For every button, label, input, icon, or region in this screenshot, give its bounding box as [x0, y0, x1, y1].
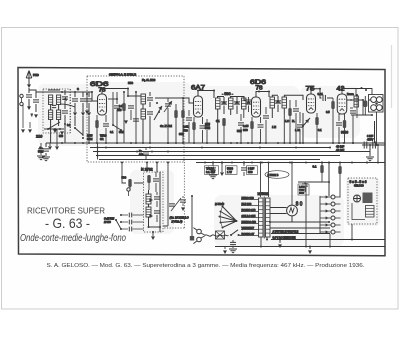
switch caps	[129, 213, 131, 218]
oval label N 5032	[265, 171, 289, 179]
right side vertical from speaker	[361, 113, 385, 145]
osc feed resistor 500	[128, 179, 131, 187]
secondary lines	[270, 228, 330, 234]
ground arrows under coil block	[48, 146, 52, 150]
bus AVC line	[46, 142, 385, 144]
V3 top cap wire	[256, 92, 269, 98]
svg-text:450V: 450V	[367, 138, 373, 142]
antenna coil LA3	[49, 110, 53, 120]
svg-text:5000: 5000	[227, 167, 233, 171]
V1 grid wire	[92, 92, 98, 101]
band switch bar antenna	[44, 128, 64, 130]
svg-text:8 MF: 8 MF	[248, 167, 254, 171]
mains feed wire	[191, 196, 193, 236]
bus junction dots	[96, 142, 98, 144]
V1 cathode bypass cap	[105, 115, 107, 122]
supply label box 2	[226, 166, 238, 175]
pictorial socket circle	[354, 195, 361, 202]
svg-text:1 M: 1 M	[295, 128, 300, 132]
svg-text:G05: G05	[117, 110, 122, 112]
switch to primary wire	[239, 234, 242, 237]
RF unit dashed box N 501 B	[87, 76, 184, 162]
antenna trimmer	[35, 92, 37, 98]
trimmer arrow across cap	[164, 101, 172, 112]
svg-text:A TUTTE LE VALVOLE: A TUTTE LE VALVOLE	[273, 231, 299, 234]
oscillator band switch contacts	[120, 214, 122, 216]
IFT1 output to V3	[237, 97, 252, 101]
svg-text:GRUPPO A. F. N 501 B: GRUPPO A. F. N 501 B	[109, 72, 136, 76]
svg-text:GIALLO 125: GIALLO 125	[242, 215, 257, 218]
svg-text:Ronza: Ronza	[347, 94, 354, 96]
svg-text:N 5032 B: N 5032 B	[268, 173, 279, 177]
voltage selector fan	[236, 220, 238, 222]
wires transformer to rectifier	[270, 208, 292, 223]
mid ground arrow	[86, 94, 88, 108]
input divider arrows	[22, 104, 24, 128]
svg-text:1 M: 1 M	[272, 126, 276, 129]
svg-text:3R: 3R	[100, 137, 104, 141]
switch arm	[116, 220, 121, 229]
pictorial wiring	[352, 203, 365, 220]
V5 grid resistor	[331, 101, 334, 109]
mains switch	[230, 234, 232, 236]
cap on osc right wire	[169, 204, 175, 206]
second ground cap antenna	[40, 143, 42, 147]
svg-text:ROSSO 140: ROSSO 140	[242, 209, 257, 212]
oscillator coil LO1	[146, 194, 151, 204]
svg-text:M.: M.	[292, 119, 295, 123]
bus line 5	[99, 159, 320, 161]
terminal strip drop wires	[330, 224, 352, 247]
det aux cap	[297, 125, 303, 127]
svg-text:1.C: 1.C	[285, 119, 289, 123]
ground antenna	[27, 106, 31, 110]
V1 screen bypass cap	[116, 98, 118, 100]
diagonal wire to filter cap	[171, 198, 181, 211]
antenna coil group L1 dashed enclosure	[43, 89, 70, 133]
svg-text:0.1: 0.1	[318, 128, 322, 132]
svg-text:300: 300	[243, 128, 248, 132]
pictorial transformer block	[363, 193, 373, 204]
plate junction dots	[101, 88, 103, 90]
antenna coil LA2	[57, 95, 61, 105]
svg-text:ROSSO AT: ROSSO AT	[242, 233, 255, 236]
terminal arrows	[326, 195, 329, 198]
svg-text:BIANCO 110: BIANCO 110	[242, 221, 257, 224]
power transformer secondary winding	[266, 198, 271, 237]
svg-text:Onde-corte-medie-lunghe-fono: Onde-corte-medie-lunghe-fono	[20, 233, 126, 244]
svg-text:S. A. GELOSO. — Mod. G. 63. —: S. A. GELOSO. — Mod. G. 63. — Superetero…	[47, 263, 365, 269]
V4 top cap wire	[311, 89, 320, 94]
coil group wiring	[48, 90, 60, 129]
tube V2 6A7 converter	[194, 96, 203, 117]
svg-text:9000: 9000	[341, 131, 348, 135]
coupling capacitor to V5	[320, 89, 333, 98]
osc trim caps	[154, 197, 160, 199]
cap on ground bus mid	[145, 148, 147, 151]
bus heater line	[96, 155, 340, 157]
IFT1 secondary trim cap	[234, 102, 240, 104]
output transformer T-OUT	[354, 96, 358, 107]
IFT2 wiring	[269, 92, 290, 119]
label box N 503	[298, 184, 309, 195]
vertical wire left of dashed box	[305, 183, 307, 247]
third IF cell cap	[246, 102, 252, 104]
terminal strip bus	[319, 196, 321, 233]
oscillator coil LO2	[146, 207, 151, 217]
trimmer cap ant 1	[62, 97, 68, 99]
wire top row to grid bus	[44, 91, 92, 93]
speaker wiring	[347, 89, 377, 146]
svg-text:50M: 50M	[237, 130, 242, 133]
tube V4 75 detector	[307, 94, 316, 113]
padder trimmer arrows osc	[149, 198, 153, 202]
V2 cathode cap	[202, 117, 204, 124]
mains plug	[197, 229, 202, 234]
V2 osc grid components	[188, 110, 190, 116]
heater bus line	[271, 239, 385, 241]
coil2 caps	[147, 98, 153, 100]
IFT1 secondary coil	[229, 98, 234, 109]
loudspeaker pictorial	[369, 95, 384, 113]
wire to V2 grid	[155, 98, 194, 103]
osc top cap	[153, 179, 159, 181]
svg-text:500: 500	[59, 135, 64, 138]
svg-text:5+: 5+	[139, 149, 142, 153]
svg-text:- 580 -: - 580 -	[222, 92, 234, 96]
dashed enclosure extension	[163, 162, 184, 228]
oscillator dashed box N 2782	[144, 172, 164, 232]
transformer bottom drops	[261, 237, 267, 247]
primary taps	[241, 200, 259, 236]
drops to ground bus	[51, 116, 89, 143]
schematic frame	[18, 68, 385, 256]
cap mid network	[302, 184, 308, 186]
tube V1 6D6 RF amplifier	[98, 94, 107, 115]
coupling cap to V2	[167, 98, 169, 102]
svg-text:0.01: 0.01	[318, 92, 324, 96]
phono jack circle	[127, 188, 130, 191]
extra cap near V1 plate	[128, 106, 134, 108]
IFT1 wiring	[214, 91, 237, 144]
screen chain extra wire	[135, 92, 137, 143]
osc box bottom ground	[152, 232, 154, 236]
svg-text:30M: 30M	[179, 133, 184, 136]
IFT1 primary trim cap	[221, 102, 227, 104]
svg-text:550: 550	[128, 81, 133, 85]
third IF cell coil	[242, 98, 247, 109]
wires into oscillator from bus	[147, 163, 157, 173]
RF interstage coil LB2	[141, 109, 146, 119]
supply label box 1	[205, 166, 219, 175]
bus B line	[93, 151, 370, 153]
tube V3 6D6 IF amplifier	[252, 97, 261, 117]
trimmer arrows row	[73, 112, 77, 116]
V1 cathode resistor	[96, 115, 98, 120]
V1 top cap wire	[102, 89, 128, 95]
speaker connection dashed box	[348, 178, 377, 224]
svg-text:LATO: LATO	[299, 186, 305, 189]
svg-text:G: G	[77, 88, 79, 91]
antenna input terminals	[20, 94, 23, 97]
junction dots B+ bus	[204, 162, 206, 164]
dropper resistor to terminal strip	[339, 163, 341, 167]
svg-text:NERO 220: NERO 220	[242, 197, 255, 200]
svg-text:MOD: MOD	[299, 193, 304, 195]
IFT2 secondary coil	[282, 97, 287, 108]
osc area extra dots	[148, 226, 150, 228]
dashed divider antenna group	[70, 89, 72, 133]
IFT1 primary coil	[216, 98, 221, 109]
svg-text:- G. 63 -: - G. 63 -	[45, 216, 90, 231]
trimmer cap ant 2	[62, 111, 68, 113]
AVC resistor under IFT	[222, 118, 225, 126]
V5 cathode cap	[338, 114, 340, 121]
svg-text:1 W: 1 W	[227, 170, 232, 174]
svg-text:6,3 V ACCENSIONE: 6,3 V ACCENSIONE	[273, 237, 296, 240]
wire right of osc box	[163, 163, 168, 227]
svg-text:M 050: M 050	[104, 221, 111, 224]
vertical feeders transformer to bus	[261, 163, 269, 198]
rectifier tube 80	[287, 205, 298, 216]
tone chain aux	[356, 95, 358, 118]
svg-text:50M: 50M	[119, 131, 124, 134]
cap under B+ bus 1	[212, 163, 214, 167]
osc top resistor	[147, 175, 150, 183]
field coil cap	[363, 101, 367, 108]
arrow under B+ bus	[221, 163, 223, 173]
cap to ground at left bus end	[45, 143, 47, 147]
V4 plate resistor	[315, 117, 318, 125]
screen divider resistor V1	[122, 103, 125, 111]
power transformer primary winding	[259, 198, 264, 237]
tube V5 42 output	[337, 94, 347, 114]
wire to V4 grid	[290, 95, 303, 100]
V2 top cap wire	[198, 91, 214, 97]
svg-text:M 5040: M 5040	[215, 202, 224, 206]
selector arc marks	[220, 207, 222, 228]
trimmer arrow ant	[63, 97, 68, 102]
V3 cathode cap	[260, 117, 262, 123]
cap under B+ bus 2	[243, 163, 245, 167]
svg-text:5 e 5 - 5 e 6: 5 e 5 - 5 e 6	[350, 180, 367, 184]
IFT2 trim cap	[275, 101, 281, 103]
extra dots top band	[123, 91, 125, 93]
grid leak resistor V2	[174, 110, 177, 118]
bus left riser	[97, 143, 99, 160]
V2 aux resistor	[181, 110, 184, 118]
diode filter cap	[293, 109, 299, 111]
junctions bottom	[279, 239, 281, 241]
bottom common line	[215, 246, 385, 248]
wire network below 75	[298, 163, 329, 197]
extra trimmer arrows	[53, 129, 57, 133]
line filter cap	[180, 200, 186, 202]
V1 screen feed wire	[92, 91, 117, 93]
svg-text:0.1: 0.1	[216, 119, 220, 123]
extra bus dots	[61, 142, 63, 144]
bus B+ line	[196, 162, 385, 164]
HT center tap line	[270, 221, 330, 223]
IFT2 primary coil	[270, 97, 275, 108]
svg-text:0.5: 0.5	[326, 110, 330, 114]
svg-text:210: 210	[36, 135, 42, 139]
svg-text:500: 500	[183, 129, 188, 133]
diode load resistor	[288, 108, 291, 116]
antenna	[26, 71, 32, 88]
svg-text:GELOSO: GELOSO	[354, 186, 364, 188]
svg-text:M 5032: M 5032	[258, 192, 269, 196]
ground stubs bottom	[279, 240, 281, 244]
bus ground line	[90, 147, 330, 149]
inter-coil cap	[52, 105, 56, 107]
diagonal coupling wire	[60, 104, 75, 107]
osc wiring	[149, 172, 161, 232]
switch dots lower	[74, 127, 76, 129]
resistor from B+ bus	[321, 163, 323, 166]
filter junction to B+ bus	[377, 145, 379, 163]
antenna coil LA1	[49, 95, 53, 105]
svg-text:N 502 A): N 502 A)	[172, 220, 183, 224]
svg-text:FND: FND	[33, 73, 39, 77]
IF aux cap	[238, 123, 244, 125]
svg-text:40 MF: 40 MF	[336, 148, 344, 152]
V3 screen cap	[265, 107, 267, 114]
svg-text:RICEVITORE SUPER: RICEVITORE SUPER	[27, 206, 105, 216]
svg-text:Gr. N 501: Gr. N 501	[160, 124, 172, 128]
padder caps row	[72, 99, 78, 101]
band switch RF section	[156, 102, 158, 104]
fuse box on cord	[216, 231, 225, 239]
tone cap	[350, 107, 353, 109]
supply label box 3	[247, 166, 258, 175]
coil2 wiring	[128, 89, 150, 144]
interference cap	[230, 242, 236, 244]
rectifier plate feeder	[291, 163, 293, 206]
third IF cell wiring	[243, 97, 245, 119]
screen jog wire	[113, 92, 121, 130]
svg-text:Fq. AL 1123: Fq. AL 1123	[142, 79, 156, 82]
antenna coil LA4	[57, 110, 61, 120]
svg-text:8 0: 8 0	[296, 202, 303, 208]
svg-text:8 MF: 8 MF	[367, 134, 373, 138]
IF2 aux drop	[283, 114, 285, 143]
V2 cathode resistor	[193, 117, 195, 122]
svg-text:530: 530	[248, 170, 253, 174]
RF interstage coil LB1	[141, 94, 146, 104]
V5 cathode resistor 9000	[344, 114, 346, 120]
mains cord	[205, 235, 229, 237]
svg-text:50M: 50M	[87, 137, 93, 141]
svg-text:42: 42	[337, 86, 345, 93]
svg-text:BLU 160: BLU 160	[242, 203, 252, 206]
volume potentiometer	[303, 113, 310, 143]
svg-text:300: 300	[139, 153, 144, 157]
V3 cathode resistor	[251, 117, 253, 121]
pictorial coil block	[366, 206, 375, 218]
scan tone smudges	[38, 82, 380, 247]
cap right of 6A7	[206, 119, 208, 124]
wire antenna to band switch	[29, 90, 44, 92]
filter electrolytics 40MF	[362, 144, 385, 146]
transformer core	[263, 197, 265, 239]
antenna coupling capacitor	[28, 88, 30, 93]
svg-text:VERDE BT: VERDE BT	[242, 227, 255, 230]
wire bus to resistor	[122, 163, 144, 184]
terminal strip circles	[331, 195, 335, 199]
svg-text:0.1: 0.1	[313, 165, 317, 169]
